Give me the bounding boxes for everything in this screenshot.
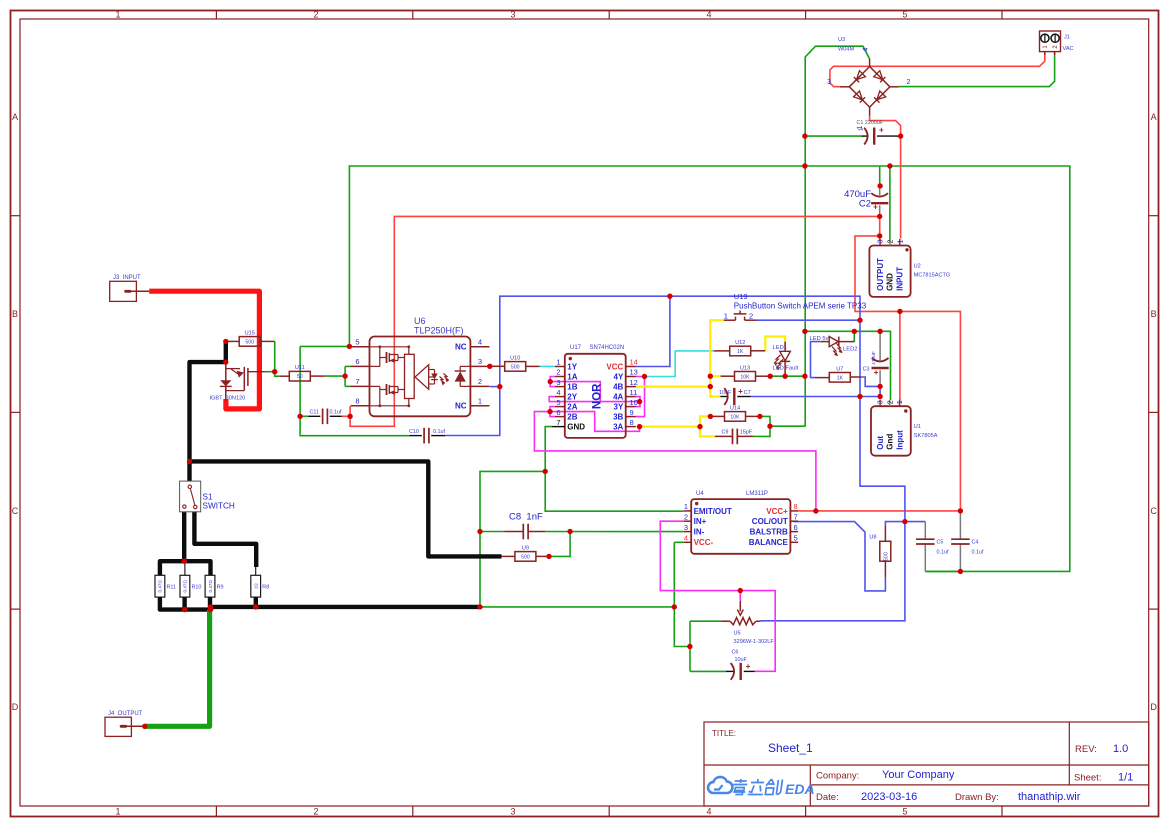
- svg-text:4A: 4A: [613, 393, 623, 402]
- svg-text:J3 INPUT: J3 INPUT: [113, 275, 141, 281]
- svg-text:8: 8: [630, 418, 634, 427]
- svg-text:1: 1: [859, 128, 865, 131]
- svg-text:U10: U10: [510, 355, 520, 361]
- svg-text:5: 5: [794, 534, 798, 543]
- svg-text:4Y: 4Y: [614, 372, 624, 381]
- svg-text:IN+: IN+: [694, 517, 707, 526]
- svg-text:U19: U19: [734, 292, 748, 301]
- svg-text:500: 500: [245, 339, 254, 345]
- svg-text:2A: 2A: [567, 403, 577, 412]
- svg-text:3: 3: [876, 240, 885, 244]
- svg-text:8: 8: [355, 397, 359, 406]
- svg-text:J1: J1: [1064, 35, 1070, 41]
- svg-text:3: 3: [556, 378, 560, 387]
- svg-text:500: 500: [511, 364, 520, 370]
- svg-text:U17: U17: [570, 345, 582, 351]
- svg-text:U2: U2: [914, 264, 921, 270]
- svg-text:1: 1: [684, 502, 688, 511]
- svg-text:EDA: EDA: [785, 781, 815, 797]
- svg-text:Out: Out: [876, 436, 885, 450]
- svg-text:1: 1: [115, 807, 120, 817]
- svg-text:0.1uf: 0.1uf: [330, 410, 342, 416]
- svg-text:+: +: [746, 662, 751, 671]
- svg-text:LED2: LED2: [843, 347, 858, 353]
- svg-text:VAC: VAC: [1063, 46, 1074, 52]
- svg-text:8: 8: [794, 502, 798, 511]
- svg-text:3296W-1-302LF: 3296W-1-302LF: [734, 639, 775, 645]
- svg-text:470uF: 470uF: [871, 351, 877, 365]
- svg-text:A: A: [1151, 112, 1157, 122]
- svg-text:1K: 1K: [737, 349, 744, 355]
- svg-text:10K: 10K: [730, 414, 740, 420]
- svg-text:6: 6: [556, 408, 560, 417]
- svg-text:2Y: 2Y: [567, 393, 577, 402]
- svg-text:1: 1: [724, 311, 728, 320]
- svg-text:U12: U12: [735, 340, 745, 346]
- svg-text:500: 500: [883, 552, 889, 561]
- svg-text:1: 1: [556, 358, 560, 367]
- svg-text:1Ω: 1Ω: [254, 583, 259, 590]
- svg-text:+: +: [873, 203, 878, 212]
- svg-text:BALSTRB: BALSTRB: [750, 528, 788, 537]
- svg-text:1/1: 1/1: [1118, 772, 1133, 784]
- svg-text:B: B: [12, 309, 18, 319]
- svg-text:C: C: [1150, 506, 1157, 516]
- svg-text:2: 2: [885, 400, 894, 404]
- svg-text:3: 3: [478, 357, 482, 366]
- svg-text:SWITCH: SWITCH: [203, 502, 235, 511]
- svg-text:10K: 10K: [740, 374, 750, 380]
- svg-text:4: 4: [863, 47, 870, 51]
- svg-text:INPUT: INPUT: [896, 267, 905, 291]
- svg-text:OUTPUT: OUTPUT: [876, 258, 885, 291]
- svg-text:5: 5: [902, 9, 907, 19]
- svg-text:1.0: 1.0: [1113, 743, 1128, 755]
- svg-text:LED Fault: LED Fault: [773, 366, 799, 372]
- svg-text:1A: 1A: [567, 372, 577, 381]
- svg-text:4B: 4B: [613, 383, 623, 392]
- svg-text:3: 3: [827, 79, 831, 86]
- svg-text:10uF: 10uF: [719, 390, 732, 396]
- svg-text:3: 3: [510, 807, 515, 817]
- svg-text:14: 14: [630, 358, 638, 367]
- svg-text:D: D: [1150, 702, 1157, 712]
- svg-text:7: 7: [556, 418, 560, 427]
- svg-text:+: +: [738, 387, 743, 396]
- svg-text:C9: C9: [722, 430, 729, 436]
- svg-text:2: 2: [478, 377, 482, 386]
- svg-text:2: 2: [749, 311, 753, 320]
- svg-text:0.1uf: 0.1uf: [433, 429, 445, 435]
- svg-text:TITLE:: TITLE:: [712, 729, 736, 738]
- svg-text:4: 4: [684, 534, 688, 543]
- svg-text:4: 4: [706, 9, 711, 19]
- svg-text:C6: C6: [732, 650, 739, 656]
- svg-text:6: 6: [355, 357, 359, 366]
- svg-text:SN74HC02N: SN74HC02N: [590, 345, 625, 351]
- svg-text:B: B: [1151, 309, 1157, 319]
- svg-text:C10: C10: [409, 429, 419, 435]
- svg-text:TLP250H(F): TLP250H(F): [414, 325, 464, 335]
- svg-text:1Y: 1Y: [567, 362, 577, 371]
- svg-text:2: 2: [907, 79, 911, 86]
- svg-text:0.1uf: 0.1uf: [972, 550, 984, 556]
- svg-text:5: 5: [902, 807, 907, 817]
- svg-text:VCC-: VCC-: [694, 538, 714, 547]
- svg-text:4: 4: [556, 388, 560, 397]
- svg-text:Input: Input: [895, 430, 904, 450]
- svg-text:2: 2: [313, 9, 318, 19]
- svg-text:C1 2200uF: C1 2200uF: [857, 120, 884, 126]
- svg-text:U9: U9: [522, 545, 529, 551]
- svg-text:U11: U11: [295, 365, 305, 371]
- svg-text:500: 500: [521, 554, 530, 560]
- svg-text:2B: 2B: [567, 413, 577, 422]
- svg-text:2023-03-16: 2023-03-16: [861, 791, 917, 803]
- svg-text:C7: C7: [744, 390, 751, 396]
- svg-text:REV:: REV:: [1075, 744, 1097, 755]
- svg-text:U1: U1: [914, 424, 921, 430]
- svg-text:R9: R9: [217, 585, 224, 591]
- svg-text:S1: S1: [203, 493, 213, 502]
- svg-text:IN-: IN-: [694, 528, 705, 537]
- svg-text:3B: 3B: [613, 413, 623, 422]
- svg-text:0.47Ω: 0.47Ω: [158, 580, 163, 593]
- svg-text:2: 2: [684, 512, 688, 521]
- svg-text:thanathip.wir: thanathip.wir: [1018, 791, 1081, 803]
- svg-text:Sheet_1: Sheet_1: [768, 741, 813, 755]
- svg-text:C8 1nF: C8 1nF: [509, 512, 543, 523]
- svg-text:Sheet:: Sheet:: [1074, 773, 1101, 784]
- svg-text:11: 11: [630, 388, 638, 397]
- svg-text:5: 5: [556, 398, 560, 407]
- svg-text:R10: R10: [192, 585, 202, 591]
- svg-text:2: 2: [313, 807, 318, 817]
- svg-text:C4: C4: [972, 540, 979, 546]
- svg-text:1: 1: [115, 9, 120, 19]
- svg-text:U3: U3: [838, 37, 845, 43]
- svg-text:VCC: VCC: [606, 362, 623, 371]
- svg-text:R8: R8: [262, 585, 269, 591]
- svg-text:Company:: Company:: [816, 771, 859, 782]
- svg-text:+: +: [874, 368, 879, 377]
- svg-text:C3: C3: [863, 367, 870, 373]
- svg-text:9: 9: [630, 408, 634, 417]
- svg-text:C2: C2: [859, 199, 871, 210]
- svg-text:3: 3: [876, 400, 885, 404]
- svg-text:3: 3: [510, 9, 515, 19]
- svg-text:Gnd: Gnd: [886, 434, 895, 450]
- svg-text:U13: U13: [740, 365, 750, 371]
- svg-text:U15: U15: [245, 330, 255, 336]
- svg-text:MC7815ACTG: MC7815ACTG: [914, 273, 951, 279]
- svg-text:2: 2: [886, 240, 895, 244]
- svg-text:5: 5: [355, 338, 359, 347]
- svg-text:13: 13: [630, 368, 638, 377]
- svg-text:D: D: [12, 702, 19, 712]
- svg-text:R11: R11: [167, 585, 177, 591]
- svg-text:Drawn By:: Drawn By:: [955, 792, 999, 803]
- svg-text:A: A: [12, 112, 18, 122]
- svg-text:0.1uf: 0.1uf: [937, 550, 949, 556]
- svg-text:IGBT 30N120: IGBT 30N120: [210, 395, 246, 401]
- svg-text:0.47Ω: 0.47Ω: [183, 580, 188, 593]
- svg-text:SK7805A: SK7805A: [914, 433, 938, 439]
- svg-text:1K: 1K: [837, 375, 844, 381]
- svg-text:3Y: 3Y: [614, 403, 624, 412]
- svg-text:7: 7: [794, 512, 798, 521]
- svg-text:Your Company: Your Company: [882, 769, 955, 781]
- svg-text:1: 1: [895, 240, 904, 244]
- svg-text:GND: GND: [886, 273, 895, 291]
- svg-text:2: 2: [556, 368, 560, 377]
- svg-text:3: 3: [684, 523, 688, 532]
- svg-text:10uF: 10uF: [735, 657, 748, 663]
- svg-text:U8: U8: [869, 535, 876, 541]
- svg-text:VCC+: VCC+: [766, 507, 788, 516]
- svg-text:15pF: 15pF: [740, 430, 753, 436]
- svg-text:+: +: [879, 126, 884, 135]
- svg-text:U14: U14: [730, 405, 740, 411]
- svg-text:GND: GND: [567, 423, 585, 432]
- svg-text:C11: C11: [310, 410, 320, 416]
- svg-text:PushButton Switch APEM serie T: PushButton Switch APEM serie TP33: [734, 302, 867, 311]
- svg-text:COL/OUT: COL/OUT: [752, 517, 788, 526]
- svg-text:C: C: [12, 506, 19, 516]
- svg-text:1: 1: [478, 397, 482, 406]
- svg-text:J4 OUTPUT: J4 OUTPUT: [108, 711, 143, 717]
- svg-text:12: 12: [630, 378, 638, 387]
- svg-text:EMIT/OUT: EMIT/OUT: [694, 507, 732, 516]
- svg-text:7: 7: [355, 377, 359, 386]
- svg-text:LM311P: LM311P: [746, 491, 768, 497]
- svg-text:NOR: NOR: [592, 383, 604, 409]
- svg-text:NC: NC: [455, 401, 467, 410]
- svg-text:Date:: Date:: [816, 792, 839, 803]
- svg-text:U5: U5: [734, 631, 741, 637]
- svg-text:NC: NC: [455, 342, 467, 351]
- svg-text:1B: 1B: [567, 383, 577, 392]
- svg-text:6: 6: [794, 523, 798, 532]
- svg-text:C5: C5: [937, 540, 944, 546]
- svg-text:W04M: W04M: [838, 47, 855, 53]
- svg-text:BALANCE: BALANCE: [749, 538, 789, 547]
- svg-text:50: 50: [297, 374, 303, 380]
- svg-text:4: 4: [706, 807, 711, 817]
- svg-text:U4: U4: [696, 491, 704, 497]
- svg-text:0.47Ω: 0.47Ω: [208, 580, 213, 593]
- svg-text:1: 1: [895, 400, 904, 404]
- svg-text:4: 4: [478, 338, 482, 347]
- svg-text:U7: U7: [836, 366, 843, 372]
- svg-text:10: 10: [630, 398, 638, 407]
- svg-text:LED 5v: LED 5v: [810, 336, 829, 342]
- svg-text:3A: 3A: [613, 423, 623, 432]
- svg-text:LED1: LED1: [773, 345, 788, 351]
